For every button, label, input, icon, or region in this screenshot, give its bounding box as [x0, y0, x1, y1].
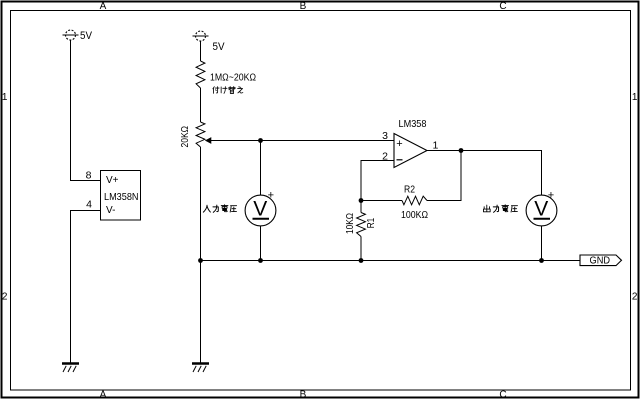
junction wiper/meter1: [258, 138, 263, 143]
svg-text:1: 1: [433, 140, 439, 152]
wire R2 to output node: [427, 151, 461, 201]
svg-text:R2: R2: [404, 184, 415, 195]
svg-text:3: 3: [382, 130, 388, 142]
wire U2 pin4 to ground: [71, 211, 101, 364]
svg-text:+: +: [396, 138, 402, 150]
svg-text:V-: V-: [106, 205, 115, 216]
svg-text:1MΩ~20KΩ: 1MΩ~20KΩ: [210, 72, 256, 83]
ground GND1: [62, 364, 79, 373]
wire P1 to U2 pin8: [71, 40, 101, 181]
svg-text:5V: 5V: [80, 30, 93, 42]
junction rail/VR1: [198, 258, 203, 263]
svg-text:20KΩ: 20KΩ: [180, 126, 191, 148]
svg-text:A: A: [100, 390, 107, 400]
svg-text:+: +: [548, 190, 554, 202]
wire node to R1: [360, 201, 362, 213]
wire M2 bottom to rail: [541, 226, 543, 261]
potentiometer VR1 20Kohm: [180, 122, 211, 148]
junction feedback node: [359, 198, 364, 203]
voltmeter M2: [526, 190, 557, 226]
wire VR1 wiper to U1 pin3: [210, 140, 394, 142]
svg-text:1: 1: [632, 92, 638, 103]
junction output/R2: [459, 148, 464, 153]
svg-text:100KΩ: 100KΩ: [401, 210, 428, 221]
IC U2 LM358N supply box: [101, 171, 141, 221]
resistor 1M-20K (swappable): [196, 61, 256, 88]
voltmeter M1: [245, 190, 276, 226]
svg-text:2: 2: [2, 292, 8, 303]
svg-text:GND: GND: [590, 256, 611, 267]
svg-text:+: +: [268, 190, 274, 202]
svg-text:2: 2: [632, 292, 638, 303]
svg-text:B: B: [300, 390, 307, 400]
op-amp U1 LM358: [394, 118, 427, 168]
svg-text:B: B: [300, 1, 307, 12]
junction rail/R1: [359, 258, 364, 263]
svg-text:V+: V+: [106, 175, 119, 186]
label nyuuryoku denatsu (input voltage): [203, 205, 236, 213]
svg-text:A: A: [100, 1, 107, 12]
svg-text:1: 1: [2, 92, 8, 103]
resistor R1 10Kohm: [345, 213, 377, 237]
svg-text:V: V: [534, 198, 548, 221]
wire P2 to R top: [200, 41, 202, 61]
junction rail/M2: [539, 258, 544, 263]
label tsukekae (replace): [213, 86, 243, 93]
label shutsuryoku denatsu (output voltage): [483, 205, 517, 213]
wire R to VR1: [200, 88, 202, 122]
wire node to R2: [361, 200, 402, 202]
wire U1 output to M2: [427, 151, 542, 196]
resistor R2 100Kohm: [401, 184, 428, 220]
net label GND: [580, 255, 622, 267]
wire junction to M1 top: [260, 141, 262, 196]
ground GND2: [192, 364, 209, 373]
svg-text:V: V: [253, 198, 267, 221]
svg-text:10KΩ: 10KΩ: [345, 213, 356, 234]
svg-text:5V: 5V: [213, 41, 226, 53]
wire VR1 bottom to ground: [200, 147, 202, 363]
junction rail/M1: [258, 258, 263, 263]
power symbol P1 +5V: [63, 30, 93, 42]
svg-text:LM358N: LM358N: [104, 191, 139, 203]
wire M1 bottom to rail: [260, 226, 262, 261]
svg-text:4: 4: [86, 199, 92, 211]
svg-text:R1: R1: [366, 217, 377, 228]
svg-text:C: C: [499, 1, 506, 12]
wire ground rail: [201, 260, 581, 262]
svg-text:C: C: [499, 390, 506, 400]
wire R1 to rail: [360, 237, 362, 261]
power symbol P2 +5V: [193, 31, 226, 53]
svg-text:8: 8: [86, 170, 92, 182]
wire U1 pin2 feedback: [361, 161, 394, 201]
svg-text:LM358: LM358: [399, 118, 427, 130]
